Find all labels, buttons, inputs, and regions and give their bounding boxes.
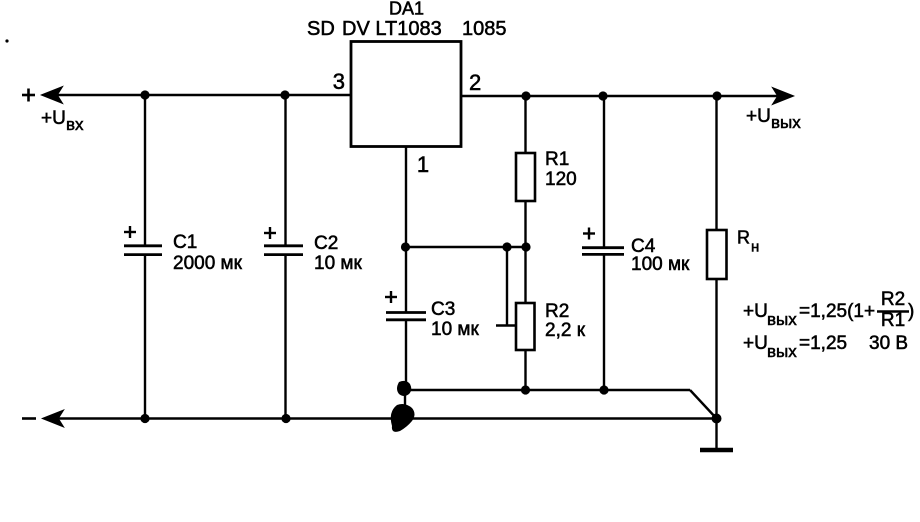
svg-text:100 мк: 100 мк [631,254,690,275]
svg-text:C3: C3 [431,299,455,320]
svg-text:10 мк: 10 мк [431,319,479,340]
resistor R2 [516,303,535,350]
capacitor C2 [264,246,303,255]
svg-text:н: н [751,239,759,256]
node Rн top [712,91,721,100]
svg-text:3: 3 [333,69,345,94]
wire top rail output side [461,95,780,97]
svg-text:+U: +U [743,301,768,322]
output arrow [773,88,793,104]
ground symbol [700,448,733,453]
wire R2 lower [524,350,526,390]
svg-text:+U: +U [746,106,771,127]
wire C3 upper [405,247,407,313]
node C4 bottom [599,385,608,394]
formula 1 [743,289,914,331]
svg-text:R1: R1 [881,310,905,331]
svg-text:+U: +U [41,108,66,129]
wire R1 lower [524,201,526,247]
node C4 top [598,91,607,100]
svg-text:вх: вх [66,115,84,134]
svg-text:вых: вых [767,342,797,361]
wire C2 lower [284,255,286,419]
svg-text:вых: вых [767,310,797,329]
label R1 value [545,149,577,190]
label C2 value [314,233,362,274]
wire diagonal to ground node [690,390,717,419]
wire C4 upper [603,96,605,248]
formula 1 fraction bar [877,310,909,312]
label +Uвых [746,106,801,132]
capacitor C4 [582,248,624,255]
svg-text:2,2 к: 2,2 к [545,320,586,341]
speck top-left [5,39,8,42]
wire Rн lower [715,279,717,419]
plus C3 [385,291,397,303]
svg-text:1085: 1085 [462,18,507,40]
wire C4 lower [603,254,605,390]
svg-text:SD: SD [307,18,335,40]
wire C1 upper [144,95,146,246]
resistor R1 [516,153,535,201]
node R2 bottom [521,385,530,394]
wiper tick into R2 [496,324,516,326]
svg-text:=1,25: =1,25 [799,333,847,354]
svg-text:+U: +U [743,333,768,354]
svg-text:R2: R2 [545,301,569,322]
wire C1 lower [144,255,146,419]
node C2 bottom [281,414,290,423]
node ground junction [712,414,722,424]
svg-text:120: 120 [545,169,577,190]
wire adj bus horizontal [405,389,690,391]
svg-text:вых: вых [771,113,801,132]
wire C3 lower [405,320,407,390]
node C1 top [140,90,149,99]
capacitor C1 [124,246,162,255]
plus C1 [124,226,136,238]
svg-text:10 мк: 10 мк [314,253,362,274]
input arrow [42,87,62,103]
node ADJ-C3 [401,242,410,251]
node C1 bottom [140,414,149,423]
bottom arrow [43,411,63,427]
svg-text:2000 мк: 2000 мк [173,253,243,274]
minus terminal (output) [22,417,36,420]
wire top rail input side [57,94,351,96]
wire Rн upper [715,96,717,230]
solder blob upper [397,381,411,396]
wire blob link [404,390,406,419]
svg-text:2: 2 [469,70,481,95]
label C3 value [431,299,479,340]
label Rн [737,228,759,256]
label C1 value [173,232,243,274]
node R1 top [521,91,530,100]
svg-text:R1: R1 [545,149,569,170]
formula 2 [743,333,908,361]
wire pin1 down [405,147,407,248]
svg-text:R2: R2 [881,289,905,310]
svg-text:DA1: DA1 [389,0,424,19]
wire wiper vertical [506,247,508,326]
svg-text:1: 1 [417,152,429,177]
capacitor C3 [386,313,426,320]
plus terminal (input) [22,89,35,102]
svg-text:=1,25(1+: =1,25(1+ [799,301,875,322]
label R2 value [545,301,586,341]
wire ADJ horizontal [405,246,526,248]
svg-text:30 В: 30 В [869,333,908,354]
op-amp DA1 [351,42,461,147]
plus C2 [264,227,276,239]
node R1-R2 [521,242,530,251]
node C2 top [280,90,289,99]
solder blob lower [391,404,415,432]
label C4 value [631,236,690,275]
plus C4 [583,228,595,240]
ground stub [715,419,717,449]
node wiper tap [502,242,511,251]
label +Uвх [41,108,84,134]
resistor Rн [707,230,727,279]
svg-text:DV LT1083: DV LT1083 [342,18,442,40]
wire R2 upper [524,247,526,303]
wire R1 upper [524,96,526,153]
svg-text:R: R [737,228,750,248]
svg-text:C1: C1 [173,232,197,253]
wire bottom rail [58,417,717,419]
svg-text:C2: C2 [314,233,338,254]
wire C2 upper [284,95,286,246]
